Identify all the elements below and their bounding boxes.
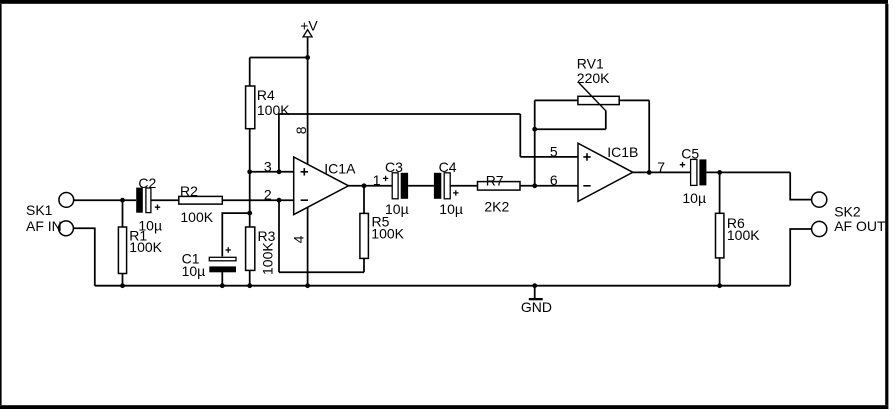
capacitor C5 xyxy=(680,146,707,206)
wire SK2 upper leg xyxy=(790,172,811,199)
wire C5 to SK2 xyxy=(706,171,790,173)
svg-text:R7: R7 xyxy=(486,173,504,189)
wire RV1 wiper horizontal xyxy=(535,128,606,130)
svg-text:R4: R4 xyxy=(257,87,275,103)
op-amp IC1A xyxy=(294,157,356,215)
svg-text:3: 3 xyxy=(264,158,272,174)
node wiper junction xyxy=(532,127,537,132)
frame top bar xyxy=(0,0,888,4)
wire C2 to R2 xyxy=(151,199,179,201)
svg-text:C2: C2 xyxy=(138,175,156,191)
capacitor C3 xyxy=(383,159,409,217)
svg-text:100K: 100K xyxy=(180,209,213,225)
svg-text:100K: 100K xyxy=(727,227,760,243)
wire R1 bottom lead xyxy=(122,274,124,286)
wire bias line vertical from pin3 xyxy=(278,114,280,172)
wire pin2 feedback column xyxy=(278,200,280,272)
frame bottom bar xyxy=(0,405,888,409)
wire bias line horizontal xyxy=(279,113,520,115)
svg-text:100K: 100K xyxy=(371,226,404,242)
svg-text:6: 6 xyxy=(550,172,558,188)
node rail GND xyxy=(532,283,537,288)
wire C1 top lead to node xyxy=(222,213,249,256)
svg-text:10µ: 10µ xyxy=(385,201,409,217)
svg-text:8: 8 xyxy=(293,126,309,134)
node IC1B output junction xyxy=(647,170,652,175)
wire R2 to pin 2 xyxy=(222,199,293,201)
node rail pin4 xyxy=(305,283,310,288)
wire R6 top lead xyxy=(719,172,721,213)
svg-text:100K: 100K xyxy=(257,102,290,118)
resistor R7 xyxy=(478,173,521,215)
wire +V stem xyxy=(307,37,309,58)
node pin2 junction xyxy=(277,198,282,203)
node C5-R6 junction xyxy=(717,170,722,175)
node C1-R3 junction xyxy=(247,211,252,216)
wire +V rail to R4 xyxy=(250,57,308,59)
wire pin 8 column xyxy=(307,58,309,164)
wire C3 to C4 xyxy=(408,185,434,187)
resistor R4 xyxy=(246,86,291,129)
node pin6 junction xyxy=(532,183,537,188)
wire C1 bottom lead xyxy=(221,272,223,286)
svg-text:R3: R3 xyxy=(258,228,276,244)
wire RV1 right column to output xyxy=(648,100,650,172)
node rail C1 xyxy=(220,283,225,288)
resistor R6 xyxy=(716,213,761,258)
wire C4 to R7 xyxy=(450,185,477,187)
resistor R1 xyxy=(118,227,162,274)
wire R5 bottom feedback xyxy=(279,271,364,273)
wire pin 3 line xyxy=(250,171,294,173)
svg-text:10µ: 10µ xyxy=(439,201,463,217)
connector SK1 xyxy=(26,193,74,236)
wire RV1 right lead xyxy=(619,99,649,101)
wire SK2 lower leg xyxy=(790,229,811,286)
node +V junction xyxy=(305,55,310,60)
ground GND bar xyxy=(529,298,543,300)
op-amp IC1B xyxy=(578,143,638,201)
svg-text:10µ: 10µ xyxy=(138,218,162,234)
svg-text:C5: C5 xyxy=(681,146,699,162)
svg-text:C4: C4 xyxy=(439,159,457,175)
resistor R3 xyxy=(246,227,276,275)
svg-text:220K: 220K xyxy=(577,70,610,86)
svg-text:IC1A: IC1A xyxy=(324,160,356,176)
wire R1 top lead xyxy=(122,200,124,227)
wire bias line down to pin5 xyxy=(519,114,521,157)
potentiometer RV1 xyxy=(577,55,619,111)
svg-text:7: 7 xyxy=(657,159,665,175)
wire IC1B output to C5 xyxy=(633,171,691,173)
wire R7 to pin 6 xyxy=(520,185,578,187)
svg-text:4: 4 xyxy=(290,235,306,243)
node rail R3 xyxy=(247,283,252,288)
wire RV1 wiper diagonal xyxy=(579,83,606,111)
node pin3-bias junction xyxy=(277,169,282,174)
svg-text:1: 1 xyxy=(373,172,381,188)
svg-text:AF OUT: AF OUT xyxy=(834,218,886,234)
node pin3-R4 junction xyxy=(247,169,252,174)
svg-text:AF IN: AF IN xyxy=(26,218,62,234)
resistor R5 xyxy=(360,213,405,258)
svg-text:100K: 100K xyxy=(129,239,162,255)
capacitor C2 xyxy=(136,175,162,234)
svg-text:5: 5 xyxy=(550,143,558,159)
wire SK1 to C2 xyxy=(74,199,136,201)
wire R4 top lead xyxy=(249,58,251,87)
wire IC1A output to C3 xyxy=(349,185,393,187)
wire RV1 wiper down xyxy=(605,111,607,130)
node input junction xyxy=(120,198,125,203)
power +V symbol xyxy=(300,17,318,37)
svg-text:100K: 100K xyxy=(259,242,275,275)
svg-text:10µ: 10µ xyxy=(182,263,206,279)
resistor R2 xyxy=(179,183,223,225)
frame right border xyxy=(885,4,888,405)
svg-text:10µ: 10µ xyxy=(682,190,706,206)
connector SK2 xyxy=(812,192,886,237)
capacitor C4 xyxy=(434,159,463,217)
node rail R1 xyxy=(120,283,125,288)
svg-text:+V: +V xyxy=(300,17,318,33)
wire RV1 left column to pin 6 xyxy=(534,100,536,185)
wire pin 5 of IC1B xyxy=(520,156,578,158)
node rail R6 xyxy=(717,283,722,288)
node IC1A output junction xyxy=(362,183,367,188)
capacitor C1 xyxy=(182,247,236,279)
svg-text:2K2: 2K2 xyxy=(484,199,509,215)
wire R5 bottom lead xyxy=(363,258,365,272)
svg-text:C3: C3 xyxy=(385,159,403,175)
wire ground rail xyxy=(95,285,790,287)
wire SK1 lower terminal xyxy=(74,228,95,285)
wire R3 bottom lead xyxy=(249,270,251,285)
wire pin 4 column xyxy=(307,206,309,285)
wire R5 top lead xyxy=(363,186,365,214)
svg-text:GND: GND xyxy=(521,299,552,315)
svg-text:2: 2 xyxy=(264,187,272,203)
frame left border xyxy=(0,4,2,405)
svg-text:R2: R2 xyxy=(180,183,198,199)
wire RV1 left lead xyxy=(535,99,578,101)
wire R6 bottom lead xyxy=(719,258,721,286)
wire GND stub xyxy=(534,286,536,299)
svg-text:IC1B: IC1B xyxy=(607,144,638,160)
wire R4 bottom to R3 top (node column) xyxy=(249,129,251,227)
svg-text:SK1: SK1 xyxy=(26,202,53,218)
